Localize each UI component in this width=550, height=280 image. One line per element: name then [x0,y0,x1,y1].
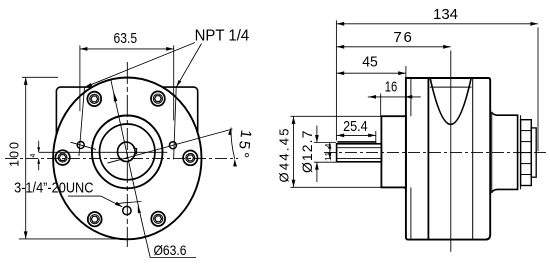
svg-text:16: 16 [385,79,398,96]
NPT leader to left port [79,43,195,157]
bore pilot circle (large) [92,115,163,188]
label diameter 63.6 with leader [141,218,196,258]
rear adjuster ribbed cylinder [521,120,532,186]
UNC hole upper-left [77,142,84,149]
screw top-right [151,91,165,105]
svg-text:100: 100 [7,142,21,167]
svg-text:Ø44.45: Ø44.45 [277,129,292,183]
bore middle circle [100,124,155,180]
dimension 11.4 (key) [324,143,333,161]
NPT leader to right port [174,44,202,160]
screw bottom-left [88,212,102,226]
svg-text:NPT 1/4: NPT 1/4 [195,28,250,45]
vertical centerline (left view) [126,62,128,247]
common left extension line [335,20,337,140]
horizontal centerline (left view) [5,158,238,160]
svg-text:63.5: 63.5 [114,30,138,47]
dimension 63.5 (top, left view) [80,30,174,120]
dimension 76 [337,29,451,49]
port centerline vertical [450,51,452,252]
screw top-left [87,92,101,106]
svg-text:45: 45 [362,54,378,71]
side hex port left [55,150,69,165]
svg-text:4: 4 [30,153,37,157]
dimension 4 (bore offset) [30,141,40,171]
body section line (thick internal) [427,78,429,240]
body face line (thin, behind plate) [410,78,412,240]
port line to left NPT hole [71,142,97,149]
port boss with V cavity [430,79,472,125]
15 degree dimension arc [228,128,254,167]
dimension 16 [368,79,421,117]
dimension 100 (vertical, left) [7,77,136,239]
svg-text:76: 76 [393,29,412,46]
dimension 45 [337,54,406,79]
15 degree port line through right NPT hole [108,129,233,163]
svg-text:Ø12.7: Ø12.7 [299,130,315,173]
dimension 134 [337,6,538,151]
dimension diameter 12.7 [299,126,336,182]
label NPT 1/4 [195,28,250,45]
svg-text:15°: 15° [234,129,254,159]
UNC hole upper-right [169,142,176,149]
bolt circle arc fragment [116,202,142,204]
svg-text:3-1/4”-20UNC: 3-1/4”-20UNC [14,180,94,197]
shaft circle with keyway [118,142,137,161]
side hex port right [183,151,197,166]
screw bottom-right [151,212,165,226]
pump round body outline (left view ellipse) [53,77,201,239]
body internal line right [472,78,474,240]
horizontal centerline (right view) [324,151,546,153]
rear cover cap [491,112,520,193]
UNC hole bottom [123,206,131,214]
label 3-1/4"-20UNC with leader [14,180,122,207]
shaft key [337,142,375,144]
bore offset reference line [39,151,168,153]
shaft (side view) [337,144,382,162]
front cover plate (side view) [381,116,406,191]
rear end small cap [531,128,536,177]
svg-text:25.4: 25.4 [343,118,368,135]
svg-text:134: 134 [433,6,458,23]
dimension diameter 44.45 [277,116,382,187]
dimension 25.4 [337,118,376,142]
svg-text:11.4: 11.4 [324,143,333,161]
svg-text:Ø63.6: Ø63.6 [154,242,187,258]
diameter line for bolt circle (steep) [111,79,141,218]
flange plate (square mounting plate, left view) [56,87,197,180]
pump body (side view) [406,78,490,240]
